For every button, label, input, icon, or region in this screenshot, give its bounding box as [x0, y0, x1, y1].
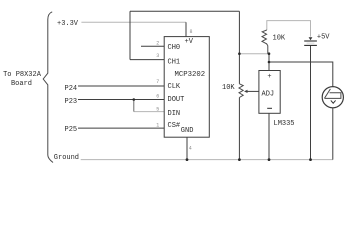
svg-text:P24: P24 — [65, 85, 78, 93]
svg-text:10K: 10K — [222, 84, 235, 92]
svg-text:+3.3V: +3.3V — [57, 20, 79, 28]
svg-text:10K: 10K — [273, 35, 286, 43]
svg-text:+V: +V — [185, 38, 194, 46]
svg-text:CS#: CS# — [168, 122, 181, 130]
svg-text:6: 6 — [156, 94, 159, 100]
svg-text:GND: GND — [181, 127, 194, 135]
svg-text:ADJ: ADJ — [262, 90, 275, 98]
svg-text:+5V: +5V — [317, 34, 330, 42]
svg-text:4: 4 — [189, 146, 192, 152]
svg-text:Ground: Ground — [54, 154, 79, 162]
svg-text:LM335: LM335 — [274, 120, 295, 128]
svg-text:+: + — [267, 73, 271, 81]
svg-text:CH0: CH0 — [168, 44, 181, 52]
svg-text:2: 2 — [156, 41, 159, 47]
svg-text:P25: P25 — [65, 126, 78, 134]
svg-text:7: 7 — [156, 79, 159, 85]
svg-text:1: 1 — [156, 122, 159, 128]
svg-text:MCP3202: MCP3202 — [175, 71, 206, 79]
svg-text:5: 5 — [156, 106, 159, 112]
svg-text:DIN: DIN — [168, 110, 181, 118]
svg-text:P23: P23 — [65, 98, 78, 106]
svg-text:CLK: CLK — [168, 83, 181, 91]
svg-text:To P8X32A: To P8X32A — [3, 71, 42, 79]
svg-text:Board: Board — [11, 80, 32, 88]
svg-text:DOUT: DOUT — [168, 96, 185, 104]
svg-text:CH1: CH1 — [168, 59, 181, 67]
svg-text:8: 8 — [190, 29, 193, 35]
svg-text:3: 3 — [156, 53, 159, 59]
